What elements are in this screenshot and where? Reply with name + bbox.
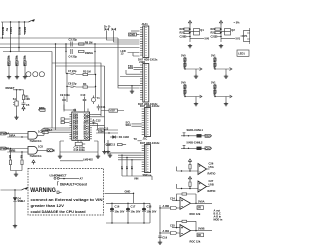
svg-text:C20: C20 [180, 35, 185, 39]
resistor R31 [197, 233, 204, 237]
wire mid vertical [104, 130, 106, 143]
wire resonator right [94, 44, 96, 52]
svg-text:R4: R4 [83, 82, 87, 86]
component MCU left io2 [61, 121, 70, 123]
svg-text:CH1: CH1 [206, 134, 212, 138]
capacitor stack F [184, 84, 186, 97]
crystal Y2 box [75, 142, 85, 145]
net flag io3 [42, 131, 49, 134]
capacitor C10 [83, 97, 87, 112]
wire vertical MOSI [18, 22, 20, 52]
wire comp2 input [177, 184, 199, 189]
power flag reset [22, 106, 25, 111]
pin numbers J1B [145, 65, 147, 100]
svg-text:C3 22p: C3 22p [69, 38, 78, 42]
resistor R11 pulldown [8, 55, 10, 75]
fuse mark after WARNING [57, 191, 62, 194]
svg-text:D1 4148: D1 4148 [119, 135, 129, 139]
node xtal dots [66, 73, 96, 87]
net flag PWMA [1, 132, 10, 136]
wire J1B w3 [120, 70, 140, 77]
svg-text:ROC 12k: ROC 12k [190, 212, 201, 216]
label DEFAULT Closed [58, 182, 88, 187]
wire E out [184, 68, 202, 71]
svg-text:DEFAULT=Closed: DEFAULT=Closed [60, 182, 87, 186]
wire comp2 out [207, 186, 210, 188]
IC U1 right pin stubs [90, 115, 92, 139]
node gate2 junctions [10, 148, 23, 153]
svg-text:MISO1: MISO1 [1, 27, 5, 36]
wire filter row2 [181, 147, 197, 149]
ground for D4 [13, 224, 17, 228]
wire flag2 drop [114, 30, 140, 42]
wire gate2 input1 [7, 148, 28, 150]
connector J1B body [143, 64, 149, 103]
node bus dots [2, 37, 56, 52]
wire xtal to mcu left [67, 90, 96, 102]
wire SCL [132, 124, 142, 126]
node comp2 dots [181, 188, 191, 189]
ground G [224, 75, 228, 79]
svg-text:J1B1: J1B1 [139, 60, 146, 64]
svg-text:Q1: Q1 [200, 28, 204, 32]
wire LED13 [128, 53, 140, 57]
wire gate1 input2 [7, 136, 28, 138]
svg-text:C4 22p: C4 22p [69, 55, 78, 59]
svg-text:connect an External voltage to: connect an External voltage to VIN [31, 198, 104, 202]
connector J1C body [145, 108, 151, 137]
svg-text:LM340S: LM340S [83, 158, 93, 162]
resistor R30 [197, 206, 204, 210]
svg-text:S1: S1 [13, 97, 17, 101]
svg-text:P1: P1 [244, 34, 248, 38]
capacitor C16 electrolytic [110, 203, 114, 223]
diode D1 [110, 136, 119, 139]
capacitor CA1 [185, 35, 191, 38]
ground regulator left [58, 155, 62, 159]
svg-text:C21: C21 [211, 35, 216, 39]
wire gate1 output [37, 134, 44, 136]
mounting hole H1 [26, 72, 31, 77]
wire op2 out [191, 230, 213, 232]
inductor L2 [197, 147, 202, 150]
connector J1A body [143, 26, 149, 58]
connector J1A pin stubs [140, 28, 143, 56]
wire cap chain mid [159, 205, 161, 241]
node gate1 input junction [21, 136, 22, 137]
wire bottom bus2 [60, 160, 83, 162]
ground F [194, 102, 198, 106]
inductor L1 [197, 134, 202, 137]
resistor R6 [21, 152, 23, 171]
wire regulator left [59, 141, 61, 155]
svg-text:2R: 2R [198, 233, 201, 237]
svg-text:R12 10K: R12 10K [15, 56, 19, 66]
component MCU left io1 [61, 118, 70, 120]
svg-text:C33 100n: C33 100n [212, 85, 216, 97]
net flag io2 [42, 129, 49, 132]
wire flag1 drop [107, 30, 140, 40]
wire J1B w5 [118, 85, 140, 87]
wire ISP power rail [1, 21, 29, 23]
connector J1B pin stubs [140, 65, 143, 100]
ground for R13 [23, 75, 27, 79]
pin numbers J1A [145, 28, 147, 56]
IC U1 bottom stubs [78, 140, 81, 142]
svg-text:74AHC1G: 74AHC1G [30, 139, 42, 143]
svg-text:A IN0: A IN0 [163, 204, 170, 208]
svg-text:C12: C12 [96, 119, 101, 123]
node GND run dot [133, 193, 134, 194]
svg-text:SCK1: SCK1 [9, 27, 13, 34]
svg-text:DAT HD3-1X13x: DAT HD3-1X13x [140, 141, 160, 145]
wire gate1 to MCU [44, 128, 70, 135]
resistor R3 [76, 73, 96, 75]
resistor R5 [9, 149, 11, 171]
wire bus line 4 [3, 51, 52, 53]
net arrow DTR [39, 106, 46, 112]
capacitor C3 [71, 42, 72, 47]
ground E [194, 75, 198, 79]
svg-text:U5B: U5B [209, 183, 214, 187]
node cluster B dots [220, 28, 221, 37]
svg-text:5V0A: 5V0A [198, 199, 205, 203]
svg-text:C16: C16 [115, 205, 120, 209]
warning box dashed border [28, 169, 104, 216]
net flag pair ISP top [105, 28, 117, 30]
label +5V boxed [109, 109, 118, 113]
IC box B [221, 29, 231, 36]
capacitor C18 electrolytic [142, 203, 146, 223]
svg-text:U5A: U5A [209, 165, 214, 169]
svg-text:R22: R22 [211, 27, 216, 31]
ground for R12 [15, 75, 19, 79]
ground cluster A [188, 44, 192, 48]
svg-text:10K: 10K [25, 97, 30, 101]
svg-text:TX: TX [134, 137, 138, 141]
wire filter row2 out [202, 147, 206, 149]
node cap bank dots [111, 203, 144, 224]
switch S1 reset button [13, 90, 18, 116]
svg-text:R3 1M: R3 1M [83, 70, 91, 74]
svg-text:RESET: RESET [6, 86, 15, 90]
wire xtal left rail [67, 74, 71, 91]
wire op1 out [191, 202, 213, 204]
svg-text:2R: 2R [198, 206, 201, 210]
capacitor stack G [214, 57, 216, 69]
svg-text:J1A1: J1A1 [142, 22, 149, 26]
svg-text:GND: GND [129, 33, 135, 37]
wire nested route 1 [52, 52, 101, 129]
svg-text:SDA: SDA [126, 123, 132, 127]
op-amp U6B [180, 225, 191, 237]
feedback loop op2 [177, 220, 197, 230]
wire vertical SCK [10, 22, 12, 52]
ground route2 [102, 150, 106, 154]
wire cap bank bottom bus [106, 222, 150, 224]
ground cluster B [219, 44, 223, 48]
wire G gnd drop [225, 69, 227, 75]
svg-text:5V0B: 5V0B [198, 227, 205, 231]
svg-text:GND: GND [125, 190, 131, 194]
svg-text:A7: A7 [80, 176, 84, 180]
wire R5 R6 join [11, 171, 23, 173]
svg-text:J1C: J1C [143, 137, 148, 141]
ground regulator right [96, 155, 100, 159]
svg-text:RATIO: RATIO [208, 172, 216, 176]
svg-text:R5: R5 [8, 155, 12, 159]
connector LED right [237, 50, 249, 56]
svg-text:R21: R21 [180, 31, 185, 35]
svg-text:DAT HD3-1X13x: DAT HD3-1X13x [140, 104, 160, 108]
svg-text:1C9: 1C9 [38, 130, 43, 134]
wire mid cluster w2 [96, 132, 118, 134]
label C16 [115, 205, 125, 214]
wire cluster B vertical [220, 25, 222, 42]
net flag CHNL2 [205, 146, 212, 150]
IC U1 right pin names [84, 112, 90, 140]
wire TX mid [138, 140, 142, 142]
net flag AIN1 [159, 229, 180, 235]
wire reset net [13, 89, 24, 91]
svg-text:A2: A2 [130, 166, 134, 170]
svg-text:C15 100n: C15 100n [74, 148, 86, 152]
wire regulator bottom bus [60, 141, 98, 152]
IC box A [190, 29, 200, 36]
wire cap bank top bus [106, 202, 150, 204]
IC U1 left pin stubs [70, 115, 72, 139]
wire mid cluster w1 [96, 129, 118, 131]
resistor RB2 [215, 32, 221, 34]
ground C19 [158, 241, 162, 245]
wire cap bank corner [149, 203, 151, 223]
node resonator dots [65, 43, 95, 52]
mounting hole H3 [39, 72, 44, 77]
svg-text:C30 100n: C30 100n [182, 58, 186, 70]
node filter row1 dots [183, 135, 189, 136]
wire cluster A out [190, 38, 204, 40]
svg-text:CH2: CH2 [206, 146, 212, 150]
wire bus line 1 [0, 37, 118, 39]
svg-text:could DAMAGE the CPU board: could DAMAGE the CPU board [31, 210, 86, 214]
svg-text:R8 1M: R8 1M [85, 40, 93, 44]
svg-text:74AHC1G: 74AHC1G [30, 154, 42, 158]
wire VIN line [1, 189, 22, 191]
svg-text:= 5%: = 5% [234, 21, 241, 25]
stub filter row2 [183, 145, 186, 148]
jumper J2 [54, 175, 60, 179]
wire H out [214, 95, 232, 98]
ground J1B [130, 90, 134, 94]
capacitor C5 reset [22, 103, 26, 107]
svg-text:5V0: 5V0 [181, 81, 186, 85]
svg-text:NOD in: NOD in [214, 218, 223, 222]
capacitor C19 [158, 236, 162, 237]
wire comp1 input [177, 167, 199, 172]
connector J1D pin stubs [142, 146, 145, 171]
wire gate2 input2 [7, 151, 28, 153]
power flag comp1 [188, 159, 191, 164]
svg-text:R13 10K: R13 10K [23, 56, 27, 66]
capacitor C11 [97, 105, 101, 111]
capacitor CB1 [216, 35, 222, 38]
wire TX0 [134, 66, 141, 68]
svg-text:C18: C18 [147, 205, 152, 209]
svg-text:5V: 5V [5, 28, 9, 31]
resistor R1 reset pullup [22, 90, 24, 103]
resistor Rc2 [189, 181, 191, 189]
gate U4A [28, 132, 37, 140]
svg-text:R11 10K: R11 10K [7, 56, 11, 66]
power flag +5V [29, 19, 35, 22]
ground J1D left [108, 153, 118, 157]
svg-text:5V1: 5V1 [236, 37, 241, 41]
op-amp U6A [180, 197, 191, 209]
svg-text:C10: C10 [81, 93, 86, 97]
node op1 fb dots [176, 200, 197, 204]
svg-text:C8 22p: C8 22p [68, 82, 77, 86]
wire gate to mcu 2 [48, 129, 70, 131]
svg-text:R20: R20 [180, 27, 185, 31]
svg-text:greater than 12V: greater than 12V [31, 204, 65, 208]
wire J1D w1 [118, 152, 142, 154]
svg-text:WARNING: WARNING [30, 187, 56, 194]
svg-text:DIRB: DIRB [9, 149, 15, 153]
label C17 [131, 205, 141, 214]
node mid cluster dots [104, 129, 110, 133]
wire F out [184, 95, 202, 98]
svg-text:10u 16V: 10u 16V [115, 210, 125, 214]
svg-text:C17: C17 [131, 205, 136, 209]
resistor R7 [118, 144, 127, 146]
svg-text:PD5: PD5 [73, 137, 79, 141]
node cluster A dots [189, 28, 190, 37]
capacitor C8 [71, 86, 76, 88]
power flag comp2 [188, 176, 191, 181]
wire gate1 input1 [7, 133, 28, 135]
node filter row2 dots [183, 148, 189, 149]
svg-text:5V1: 5V1 [211, 81, 216, 85]
resistor Rc1 [189, 164, 191, 172]
node VIN junction [14, 189, 15, 190]
node reset junction [16, 89, 21, 90]
power flag gates [32, 160, 35, 165]
label C18 [147, 205, 157, 214]
svg-text:C25: C25 [170, 223, 175, 227]
svg-text:RATIO: RATIO [208, 189, 216, 193]
wire op2 in2 [172, 227, 180, 229]
wire RX0 [134, 69, 141, 71]
svg-text:C9 100n: C9 100n [60, 93, 70, 97]
wire regulator right [97, 141, 99, 155]
node comp1 dots [181, 170, 191, 171]
wire F gnd drop [195, 97, 197, 103]
svg-text:C19: C19 [162, 236, 167, 240]
wire J1D w2 [118, 154, 142, 156]
wire resonator left [65, 44, 67, 52]
svg-text:5V0: 5V0 [181, 54, 186, 58]
svg-text:5V0: 5V0 [205, 37, 210, 41]
wire op1 in2 [172, 199, 180, 201]
svg-text:Y1: Y1 [97, 96, 101, 100]
svg-text:OC1A: OC1A [45, 128, 52, 132]
wire GND run [105, 193, 134, 203]
wire nested route 2 [56, 44, 105, 150]
power flag VIN [22, 187, 28, 190]
power flag cluster A [188, 20, 191, 25]
wire cluster B out [221, 38, 235, 40]
pin numbers J1C [147, 109, 149, 134]
wire bus to xtal right [94, 52, 97, 75]
svg-text:+5V: +5V [110, 109, 115, 113]
wire E gnd drop [195, 69, 197, 75]
capacitor stack H [214, 84, 216, 97]
resistor RA1 [184, 28, 190, 30]
wire drop A2 [131, 160, 133, 176]
net flag CHNL1 [205, 134, 212, 138]
svg-text:Q2: Q2 [231, 28, 235, 32]
node junction dots on rail [10, 21, 25, 22]
ground C13 [106, 150, 110, 154]
svg-text:D+ D-: D+ D- [104, 24, 111, 28]
wire cluster A vertical [189, 25, 191, 42]
pin numbers J1D [147, 146, 149, 171]
wire drop A1 [126, 158, 128, 177]
svg-text:1C8: 1C8 [38, 145, 43, 149]
svg-text:ROC 12k: ROC 12k [190, 239, 201, 243]
wire filter row1 [181, 135, 197, 137]
mounting hole H2 [33, 72, 38, 77]
wire +5V link [101, 110, 124, 112]
wire filter row1 out [202, 135, 206, 137]
svg-text:SHD1-CHNL1: SHD1-CHNL1 [187, 128, 204, 132]
svg-text:VIN: VIN [134, 177, 138, 181]
IC U1 top pin stubs [64, 105, 88, 113]
op-amp U5A [198, 164, 207, 175]
wire J1B gnd drop [131, 85, 132, 90]
svg-text:C27: C27 [209, 179, 214, 183]
capacitor C7 [70, 73, 75, 75]
svg-text:5V1: 5V1 [211, 54, 216, 58]
svg-text:10u 16V: 10u 16V [147, 210, 157, 214]
svg-text:R6: R6 [20, 155, 24, 159]
node J1D wire dots [121, 154, 132, 160]
capacitor C17 electrolytic [126, 203, 130, 223]
wire G out [214, 68, 232, 71]
resistor RB1 [215, 28, 221, 30]
svg-text:RX0: RX0 [128, 66, 134, 70]
wire vertical MISO [2, 22, 4, 38]
wire bus line 2 [0, 43, 140, 45]
wire jumper out [59, 178, 79, 179]
capacitor stack E [184, 57, 186, 69]
svg-text:C24: C24 [170, 196, 175, 200]
svg-text:RST1: RST1 [23, 27, 27, 34]
svg-text:10u 16V: 10u 16V [131, 210, 141, 214]
wire A bus right [122, 176, 152, 180]
label GND boxed [129, 33, 140, 37]
diode D4 TVS [13, 190, 17, 224]
svg-text:LED1: LED1 [238, 52, 245, 56]
svg-text:OC1B: OC1B [48, 148, 55, 152]
op-amp U5B [198, 181, 207, 192]
svg-text:C11: C11 [101, 105, 106, 109]
net flag gate2 out [47, 148, 55, 152]
IC U1 MCU body [72, 112, 90, 140]
svg-text:ADC: ADC [84, 137, 90, 141]
svg-text:A IN1: A IN1 [163, 229, 170, 233]
connector JP right edge [241, 28, 250, 44]
